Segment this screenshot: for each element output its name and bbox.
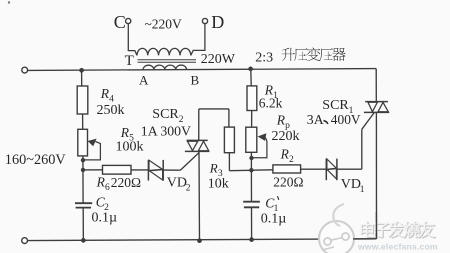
svg-text:220Ω: 220Ω xyxy=(273,174,303,189)
svg-text:100k: 100k xyxy=(116,140,144,155)
svg-text:250k: 250k xyxy=(97,103,125,118)
svg-text:0.1µ: 0.1µ xyxy=(261,211,287,226)
svg-text:VD: VD xyxy=(167,176,187,191)
svg-text:2: 2 xyxy=(186,183,191,193)
svg-text:C: C xyxy=(114,12,126,32)
svg-text:B: B xyxy=(191,72,200,87)
svg-text:2:3: 2:3 xyxy=(255,50,273,65)
svg-text:D: D xyxy=(211,12,224,32)
svg-text:T: T xyxy=(125,53,134,69)
svg-text:www.elecfans.com: www.elecfans.com xyxy=(357,242,438,252)
svg-text:6: 6 xyxy=(105,183,110,193)
svg-text:0.1µ: 0.1µ xyxy=(92,211,118,226)
svg-text:400V: 400V xyxy=(331,112,361,127)
svg-text:1: 1 xyxy=(360,185,365,195)
svg-text:220k: 220k xyxy=(272,129,300,144)
svg-text:1A 300V: 1A 300V xyxy=(141,123,191,138)
svg-text:SCR: SCR xyxy=(322,98,349,113)
svg-text:A: A xyxy=(139,72,149,87)
svg-text:6.2k: 6.2k xyxy=(259,95,283,110)
svg-text:~220V: ~220V xyxy=(145,16,183,31)
svg-text:160~260V: 160~260V xyxy=(5,152,67,168)
svg-text:R: R xyxy=(209,161,218,176)
svg-text:3A: 3A xyxy=(307,112,324,127)
svg-text:220W: 220W xyxy=(201,52,236,67)
svg-text:220Ω: 220Ω xyxy=(111,175,141,190)
svg-text:SCR: SCR xyxy=(152,107,179,122)
svg-text:2: 2 xyxy=(289,155,294,165)
svg-text:10k: 10k xyxy=(208,176,229,191)
svg-text:VD: VD xyxy=(341,177,361,192)
